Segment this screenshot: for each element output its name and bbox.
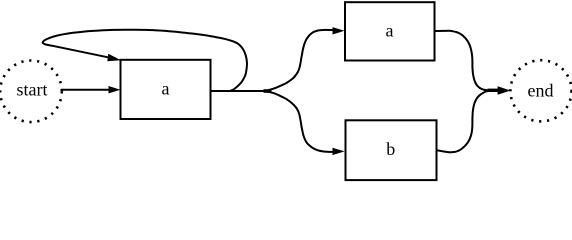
box b B — [346, 120, 437, 180]
svg-text:a: a — [162, 78, 170, 98]
svg-text:end: end — [528, 81, 554, 101]
wire A2 to merge — [435, 31, 489, 91]
wire A1 to fork — [211, 90, 269, 92]
svg-text:start: start — [17, 80, 48, 100]
arrow merge to end — [498, 86, 511, 94]
wire B to merge — [437, 91, 489, 153]
node end (dotted circle) — [510, 60, 571, 121]
wire fork to box B — [267, 92, 345, 156]
box a A2 — [345, 2, 435, 60]
wire start to box A1 — [61, 86, 121, 93]
self-loop wire on A1 — [43, 30, 247, 91]
svg-text:a: a — [386, 20, 394, 40]
wire fork to box A2 — [267, 27, 345, 90]
svg-text:b: b — [386, 139, 395, 159]
node start (dotted circle) — [0, 61, 62, 123]
box a A1 — [121, 60, 211, 119]
fork junction — [264, 89, 272, 93]
